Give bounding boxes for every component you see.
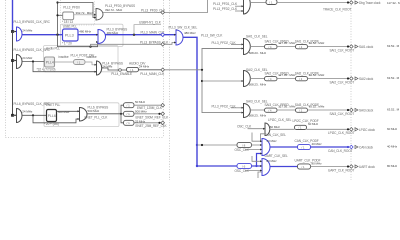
svg-text:60 MHz: 60 MHz	[270, 125, 281, 129]
node dot sai2 root	[347, 77, 349, 79]
svg-text:63.52.. MHz: 63.52.. MHz	[309, 41, 325, 45]
svg-text:127.05.. MHz: 127.05.. MHz	[278, 73, 296, 77]
wire sai1 mux out	[250, 46, 265, 48]
wire 25M out	[134, 122, 160, 124]
wire lpi2c root	[307, 128, 349, 130]
wire can feed	[197, 144, 237, 146]
wire to 125M div	[121, 105, 124, 114]
wire sai3 root	[308, 109, 349, 111]
wire can root (blue)	[311, 146, 349, 148]
svg-text:UART_CLK_ROOT: UART_CLK_ROOT	[328, 168, 354, 172]
mux PLL4_BYPASS_CLK_SRC	[17, 55, 23, 69]
node dot can root	[347, 146, 349, 148]
svg-text:500 MHz: 500 MHz	[58, 110, 70, 114]
wire pll4 main to bus	[165, 69, 203, 71]
svg-text:PLL3_SW_CLK_SEL: PLL3_SW_CLK_SEL	[169, 25, 198, 29]
svg-text:500 MHz: 500 MHz	[88, 109, 100, 113]
wire sai3 mux out	[250, 109, 265, 111]
svg-text:/ 1: / 1	[127, 121, 131, 125]
svg-text:LPI2C_CLK_SEL: LPI2C_CLK_SEL	[268, 118, 292, 122]
wire sai1 input1	[231, 43, 244, 45]
box SAI2_CLK_PRED	[265, 77, 278, 81]
svg-text:/ 6: / 6	[242, 164, 246, 168]
wire pfd1 to trace mux	[235, 5, 244, 7]
node uart tap blue bus	[196, 165, 198, 167]
svg-text:63.52.. M: 63.52.. M	[387, 108, 400, 112]
wire sai3 input1	[231, 107, 244, 109]
svg-text:63.52.. MHz: 63.52.. MHz	[309, 73, 325, 77]
wire PLL4 to POST_DIV	[55, 61, 74, 63]
svg-text:PLL3_SW_CLK: PLL3_SW_CLK	[201, 34, 223, 38]
svg-text:CAN_CLK_ROOT: CAN_CLK_ROOT	[328, 149, 353, 153]
svg-text:SAI1_CLK_ROOT: SAI1_CLK_ROOT	[330, 48, 355, 52]
node pll4 bypass tap	[32, 60, 34, 62]
box PLL6	[47, 110, 57, 122]
svg-text:inactive: inactive	[59, 55, 69, 59]
node PLL4_ENABLE gate	[119, 69, 122, 72]
svg-text:PLL4: PLL4	[46, 61, 54, 65]
box SAI2_CLK_PODF	[296, 77, 308, 81]
svg-text:CAN clock: CAN clock	[359, 146, 373, 150]
node dot trace root	[347, 1, 349, 3]
node pll4 main T	[201, 69, 203, 71]
node diamond can root	[350, 145, 354, 149]
wire PLL3_BYPASS_CLK	[91, 44, 161, 46]
mux PLL6_BYPASS	[80, 108, 88, 122]
wire uart mux out (blue)	[270, 166, 300, 168]
svg-text:508.23.. MHz: 508.23.. MHz	[249, 51, 267, 55]
dashed container border left	[5, 0, 7, 138]
svg-text:CAN_CLK_SEL: CAN_CLK_SEL	[265, 133, 287, 137]
dashed container border left (CCM section)	[169, 0, 171, 180]
node diamond 125M	[161, 103, 165, 107]
svg-text:UART clock: UART clock	[359, 165, 375, 169]
svg-text:SAI3 clock: SAI3 clock	[359, 109, 374, 113]
wire mux4 input stub	[13, 114, 17, 116]
svg-text:PLL3_PFD1_CLK: PLL3_PFD1_CLK	[213, 2, 238, 6]
svg-text:*32 + (77/100): *32 + (77/100)	[37, 67, 56, 71]
wire SW out to vertical bus (blue)	[183, 37, 197, 167]
box SAI3_CLK_PRED	[265, 108, 278, 112]
mux PLL6_BYPASS_CLK_SRC	[17, 109, 22, 123]
svg-text:117.32.. M: 117.32.. M	[387, 1, 400, 5]
wire sai3 pred-podf	[277, 109, 296, 111]
svg-text:inactive: inactive	[87, 55, 97, 59]
wire sai2 input from bus	[202, 80, 244, 82]
wire lpi2c mux out	[270, 128, 295, 130]
svg-text:USB1 PLL: USB1 PLL	[63, 25, 77, 29]
wire PLL3_PFD0_CLK	[103, 12, 162, 14]
wire uart top input	[252, 156, 262, 161]
svg-text:24 MHz: 24 MHz	[22, 109, 33, 113]
dashed group box PLL3_PFD0	[61, 0, 95, 25]
wire pll6 bypass bottom path	[33, 115, 80, 123]
node pfd bypass tap	[56, 1, 58, 3]
svg-text:60 MHz: 60 MHz	[387, 127, 398, 131]
dashed container border bottom	[6, 137, 164, 139]
svg-text:392.72.. MHz: 392.72.. MHz	[105, 8, 123, 12]
node dot 25M	[158, 122, 160, 124]
arrow lpi2c out	[355, 128, 358, 131]
wire riser to CAN mux (blue)	[257, 154, 263, 167]
wire pfd box output	[74, 14, 96, 16]
svg-text:392.72.. MHz: 392.72.. MHz	[76, 11, 94, 15]
svg-text:LPI2C_CLK_ROOT: LPI2C_CLK_ROOT	[328, 131, 355, 135]
svg-text:60 MHz: 60 MHz	[308, 122, 319, 126]
svg-text:80 MHz: 80 MHz	[312, 162, 323, 166]
box ENET_500M div	[124, 111, 135, 116]
mux PLL3_SW_CLK_SEL	[176, 30, 183, 45]
svg-text:TRACE_CLK_ROOT: TRACE_CLK_ROOT	[323, 8, 352, 12]
mux PLL4_BYPASS	[97, 61, 102, 75]
wire trace mux out	[250, 2, 266, 4]
box ENET_25M div	[124, 120, 135, 125]
dashed container border (output section)	[350, 0, 352, 180]
wire to 25M div	[121, 114, 124, 123]
wire mux4 to PLL6	[22, 114, 47, 116]
mux TRACE_CLK_SEL	[244, 0, 251, 14]
node osc/mux1 junction	[11, 30, 14, 33]
svg-text:ENET PLL: ENET PLL	[46, 103, 61, 107]
svg-text:OSC_CLK: OSC_CLK	[235, 169, 250, 173]
wire USBPHY1_CLK	[134, 25, 161, 35]
wire 125M out	[134, 104, 161, 106]
wire bypass mux to AUDIO_DIV	[102, 68, 127, 70]
svg-text:PLL4_ENABLE: PLL4_ENABLE	[111, 72, 132, 76]
svg-text:480 MHz: 480 MHz	[184, 31, 196, 35]
svg-text:24 MHz: 24 MHz	[139, 64, 150, 68]
svg-text:SAI3_CLK_ROOT: SAI3_CLK_ROOT	[330, 112, 355, 116]
wire sai2 mux out	[250, 78, 265, 80]
node osc/mux2 junction	[11, 59, 14, 62]
box AUDIO_DIV	[127, 67, 139, 71]
node diamond trace root	[350, 1, 354, 5]
svg-text:PLL3: PLL3	[65, 34, 74, 38]
svg-text:500 MHz: 500 MHz	[135, 110, 147, 114]
wire uart root	[311, 166, 349, 168]
svg-text:ENET_25M_REF_CLK: ENET_25M_REF_CLK	[136, 124, 168, 128]
wire 24MHz osc vertical (mid)	[12, 32, 14, 116]
svg-text:SAI1 clock: SAI1 clock	[359, 45, 374, 49]
wire PFD0 to top right corner	[165, 0, 208, 13]
svg-text:UART_CLK_SEL: UART_CLK_SEL	[265, 154, 289, 158]
svg-text:Dbg Trace clock: Dbg Trace clock	[359, 1, 381, 5]
box SAI3_CLK_PODF	[296, 108, 308, 112]
wire uart osc input	[245, 170, 262, 172]
svg-text:SAI2_CLK_ROOT: SAI2_CLK_ROOT	[330, 80, 355, 84]
svg-text:50 MHz: 50 MHz	[135, 100, 146, 104]
dashed container border right (analog section)	[163, 0, 165, 138]
wire uart mux lower curve	[258, 172, 262, 178]
node enet div tap	[120, 113, 122, 115]
svg-text:* 18 / 13: * 18 / 13	[62, 20, 73, 24]
node dot sai3 root	[347, 109, 349, 111]
mux PLL3_BYPASS_CLK_SRC	[17, 27, 23, 41]
arrow sai3 out	[355, 108, 358, 111]
node pfd box input	[56, 14, 58, 16]
node diamond lpi2c root	[350, 128, 354, 132]
wire lpi2c osc input	[248, 128, 266, 130]
svg-text:40 MHz: 40 MHz	[387, 145, 398, 149]
wire 500M out	[134, 113, 160, 115]
svg-text:USBPHY1_CLK: USBPHY1_CLK	[139, 21, 162, 25]
svg-text:/ 8: / 8	[242, 143, 246, 147]
node diamond uart root	[350, 165, 354, 169]
svg-text:OSC_CLK: OSC_CLK	[235, 148, 250, 152]
svg-text:SAI2 clock: SAI2 clock	[359, 77, 374, 81]
group box Audio PLL	[44, 46, 119, 72]
arrow sai1 out	[355, 45, 358, 48]
node diamond sai2 root	[350, 77, 354, 81]
node uart-can riser tap	[255, 165, 257, 167]
wire lpi2c mux lower input curve	[261, 134, 266, 142]
wire can mux out (blue)	[270, 146, 300, 148]
mux SAI2_CLK_SEL	[244, 71, 251, 87]
wire pll4 bypass bottom path	[33, 62, 97, 72]
node can bus1 end	[201, 144, 203, 146]
node diamond blue rail	[161, 33, 165, 37]
node diamond sai1 root	[350, 45, 354, 49]
svg-text:LPI2C clock: LPI2C clock	[359, 128, 375, 132]
mux SAI1_CLK_SEL	[244, 39, 251, 55]
wire sai1 root	[308, 46, 349, 48]
group box ENET PLL	[44, 103, 119, 127]
svg-text:ENET_PLL_CLK: ENET_PLL_CLK	[85, 115, 109, 119]
wire POST_DIV to bypass mux	[85, 62, 97, 65]
node usbphy tap	[133, 34, 135, 36]
svg-text:80 MHz: 80 MHz	[267, 159, 278, 163]
wire bypass to SW mux	[165, 43, 177, 45]
node dot uart root	[347, 165, 349, 167]
wire uart feed (blue)	[197, 165, 237, 167]
svg-text:63.52.. M: 63.52.. M	[387, 44, 400, 48]
box CAN_CLK_PODF	[298, 144, 311, 149]
group box USB1 PLL	[61, 24, 124, 46]
wire bypass mux output (blue)	[106, 34, 177, 36]
box PLL4_POST_DIV	[74, 60, 86, 65]
wire uart div to mux (blue)	[252, 165, 263, 167]
wire PLL3 output (blue)	[78, 34, 98, 36]
node pll6 bypass tap	[32, 114, 34, 116]
node diamond 25M	[161, 121, 165, 125]
svg-text:127.05.. MHz: 127.05.. MHz	[278, 41, 296, 45]
node dot sai1 root	[347, 45, 349, 47]
svg-text:PLL4_MAIN_CLK: PLL4_MAIN_CLK	[140, 72, 165, 76]
svg-text:PLL6: PLL6	[48, 114, 56, 118]
node diamond PFD0	[161, 11, 165, 15]
svg-text:508.23.. MHz: 508.23.. MHz	[249, 114, 267, 118]
wire sai2 pred-podf	[277, 78, 296, 80]
wire PLL4_MAIN_CLK	[139, 69, 162, 71]
svg-text:OSC_CLK: OSC_CLK	[237, 125, 252, 129]
wire ENET_PLL_CLK out	[87, 113, 124, 115]
box PLL3	[63, 29, 79, 41]
svg-text:Audio PLL: Audio PLL	[46, 46, 60, 50]
node sai2 tap bus	[201, 80, 203, 82]
svg-text:40 MHz: 40 MHz	[267, 139, 278, 143]
wire bypass path bottom	[58, 35, 99, 47]
wire can osc input	[245, 149, 262, 151]
node PLL3 input junction	[56, 34, 58, 36]
mux input arrows	[15, 31, 17, 33]
wire 24MHz osc vertical (blue top)	[12, 0, 14, 32]
wire sai1 pred-podf	[277, 46, 296, 48]
wire mux2 to PLL4	[22, 61, 45, 63]
node diamond bypass clk	[161, 43, 165, 47]
wire mux1 input stub	[13, 31, 17, 33]
wire can top input	[252, 133, 262, 142]
wire mux1 to PLL3 (blue)	[22, 34, 63, 36]
svg-text:SAI1_CLK_SEL: SAI1_CLK_SEL	[246, 34, 268, 38]
wire bypass feed up	[57, 3, 59, 35]
box SAI1_CLK_PRED	[265, 45, 278, 49]
node bypass branch	[89, 46, 91, 48]
mux LPI2C_CLK_SEL	[265, 123, 270, 136]
svg-text:/ 1: / 1	[77, 60, 81, 64]
svg-text:24 MHz: 24 MHz	[22, 56, 33, 60]
box LPI2C_CLK_PODF	[295, 125, 307, 129]
mux PLL3 bypass select	[98, 30, 106, 44]
svg-text:63.52.. MHz: 63.52.. MHz	[309, 105, 325, 109]
svg-text:80 MHz: 80 MHz	[387, 164, 398, 168]
node diamond pll4 main	[161, 68, 165, 72]
node diamond sai3 root	[350, 108, 354, 112]
wire can div to mux	[252, 144, 263, 146]
svg-text:63.52.. M: 63.52.. M	[387, 76, 400, 80]
mux SAI3_CLK_SEL	[244, 104, 251, 118]
arrow can out	[355, 145, 358, 148]
mux PLL3_PFD0 bypass	[96, 9, 103, 21]
svg-text:508.23.. MHz: 508.23.. MHz	[249, 82, 267, 86]
svg-text:40 MHz: 40 MHz	[312, 142, 323, 146]
svg-text:127.05.. MHz: 127.05.. MHz	[278, 105, 296, 109]
wire pfd2 to trace mux	[235, 10, 244, 12]
wire trace root	[277, 2, 348, 4]
svg-text:/ 1: / 1	[127, 104, 131, 108]
box PLL3_PFD0	[63, 12, 74, 20]
box TRACE_CLK_PODF	[266, 0, 277, 5]
mux CAN_CLK_SEL	[262, 139, 270, 156]
svg-text:/ 1: / 1	[269, 0, 273, 4]
arrow uart out	[355, 165, 358, 168]
bus gray vertical	[202, 49, 244, 113]
node osc/mux4 junction	[11, 114, 14, 117]
node can tap blue bus	[196, 144, 198, 146]
node diamond 500M	[161, 112, 165, 116]
box ENET_125M div	[124, 103, 135, 108]
svg-text:24 MHz: 24 MHz	[22, 28, 33, 32]
box UART_CLK_PODF	[298, 164, 311, 169]
wire pfd mux bypass input	[58, 3, 97, 18]
node dot lpi2c root	[347, 128, 349, 130]
svg-text:480 MHz: 480 MHz	[79, 29, 91, 33]
svg-text:/ 1: / 1	[127, 112, 131, 116]
svg-text:PLL3_BYPASS_CLK_SRC: PLL3_BYPASS_CLK_SRC	[14, 20, 51, 24]
mux UART_CLK_SEL	[262, 159, 270, 176]
node dot 500M	[158, 113, 160, 115]
box CAN div8	[237, 142, 252, 147]
box SAI1_CLK_PODF	[296, 45, 308, 49]
arrow trace out	[355, 1, 358, 4]
wire sai2 root	[308, 78, 349, 80]
svg-text:* 1 * 20: * 1 * 20	[62, 42, 72, 46]
wire pfd box input	[58, 14, 63, 16]
arrow sai2 out	[355, 77, 358, 80]
wire PLL6 to bypass mux	[57, 110, 80, 112]
wire mux2 input stub	[13, 60, 17, 62]
svg-text:PLL3_PFD2_CLK: PLL3_PFD2_CLK	[213, 7, 238, 11]
box UART div (blue)	[237, 163, 252, 168]
box PLL4 (inactive)	[45, 57, 55, 67]
svg-text:/ 1: / 1	[130, 68, 134, 72]
svg-text:PLL3_PFD0: PLL3_PFD0	[63, 6, 80, 10]
svg-text:PLL3_BYPASS_CLK: PLL3_BYPASS_CLK	[140, 40, 169, 44]
